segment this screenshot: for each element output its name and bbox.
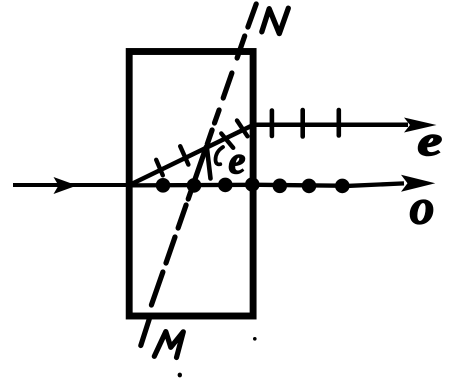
axis dash 11 (crossing bottom edge, near M) [141,319,150,346]
axis dash 8 [178,205,186,228]
o-ray dot 7 [335,179,350,194]
stray ink dot below bottom-right corner [253,337,257,341]
stray ink speck below M [178,373,182,378]
o-ray dot 6 [302,179,317,194]
svg-text:e: e [229,140,246,182]
axis dash 3 [223,73,232,98]
e-ray tick D (at exit face) [237,121,248,137]
e-ray tick A (diagonal) [156,160,163,176]
crystal plate rectangle [129,52,253,317]
o-ray arrowhead [401,175,435,192]
optic axis dashed line (M to N) [141,4,256,346]
e-ray tick C (diagonal) [221,134,233,148]
axis dash 9 [166,237,175,263]
e-ray arrowhead [404,118,437,133]
axis dash 10 [151,272,163,305]
axis dash 7 (through dot on o-ray) [188,186,193,199]
label M [154,332,183,358]
angle arc near e label [216,147,224,164]
o-ray dot 1 [156,178,171,193]
axis dash 5 [207,130,212,144]
svg-text:o: o [410,179,435,235]
ordinary ray o [130,183,404,185]
o-ray dot 4 (at exit face) [245,177,260,192]
incident ray [13,183,130,187]
extraordinary ray e (diagonal inside crystal) [130,125,253,185]
o-ray dot 5 [273,179,288,194]
svg-text:e: e [418,117,443,164]
e-ray tick B (diagonal) [180,146,188,164]
e-ray tick F (vertical) [300,110,305,137]
axis dash 2 (crossing top edge) [237,36,245,58]
e-ray tick G (vertical) [336,110,341,136]
e-ray tick E (vertical) [270,111,275,137]
label N [262,8,289,33]
o-ray dot 2 [187,178,202,193]
axis dash 4 [215,110,220,123]
extraordinary ray e (horizontal outside) [251,122,408,127]
axis dash 1 (top, near N) [248,4,256,27]
axis dash 6 (below e-ray crossing) [195,147,206,179]
incident ray arrowhead [54,177,78,194]
tick leg below axis crossing [207,149,211,179]
o-ray dot 3 [218,178,233,193]
